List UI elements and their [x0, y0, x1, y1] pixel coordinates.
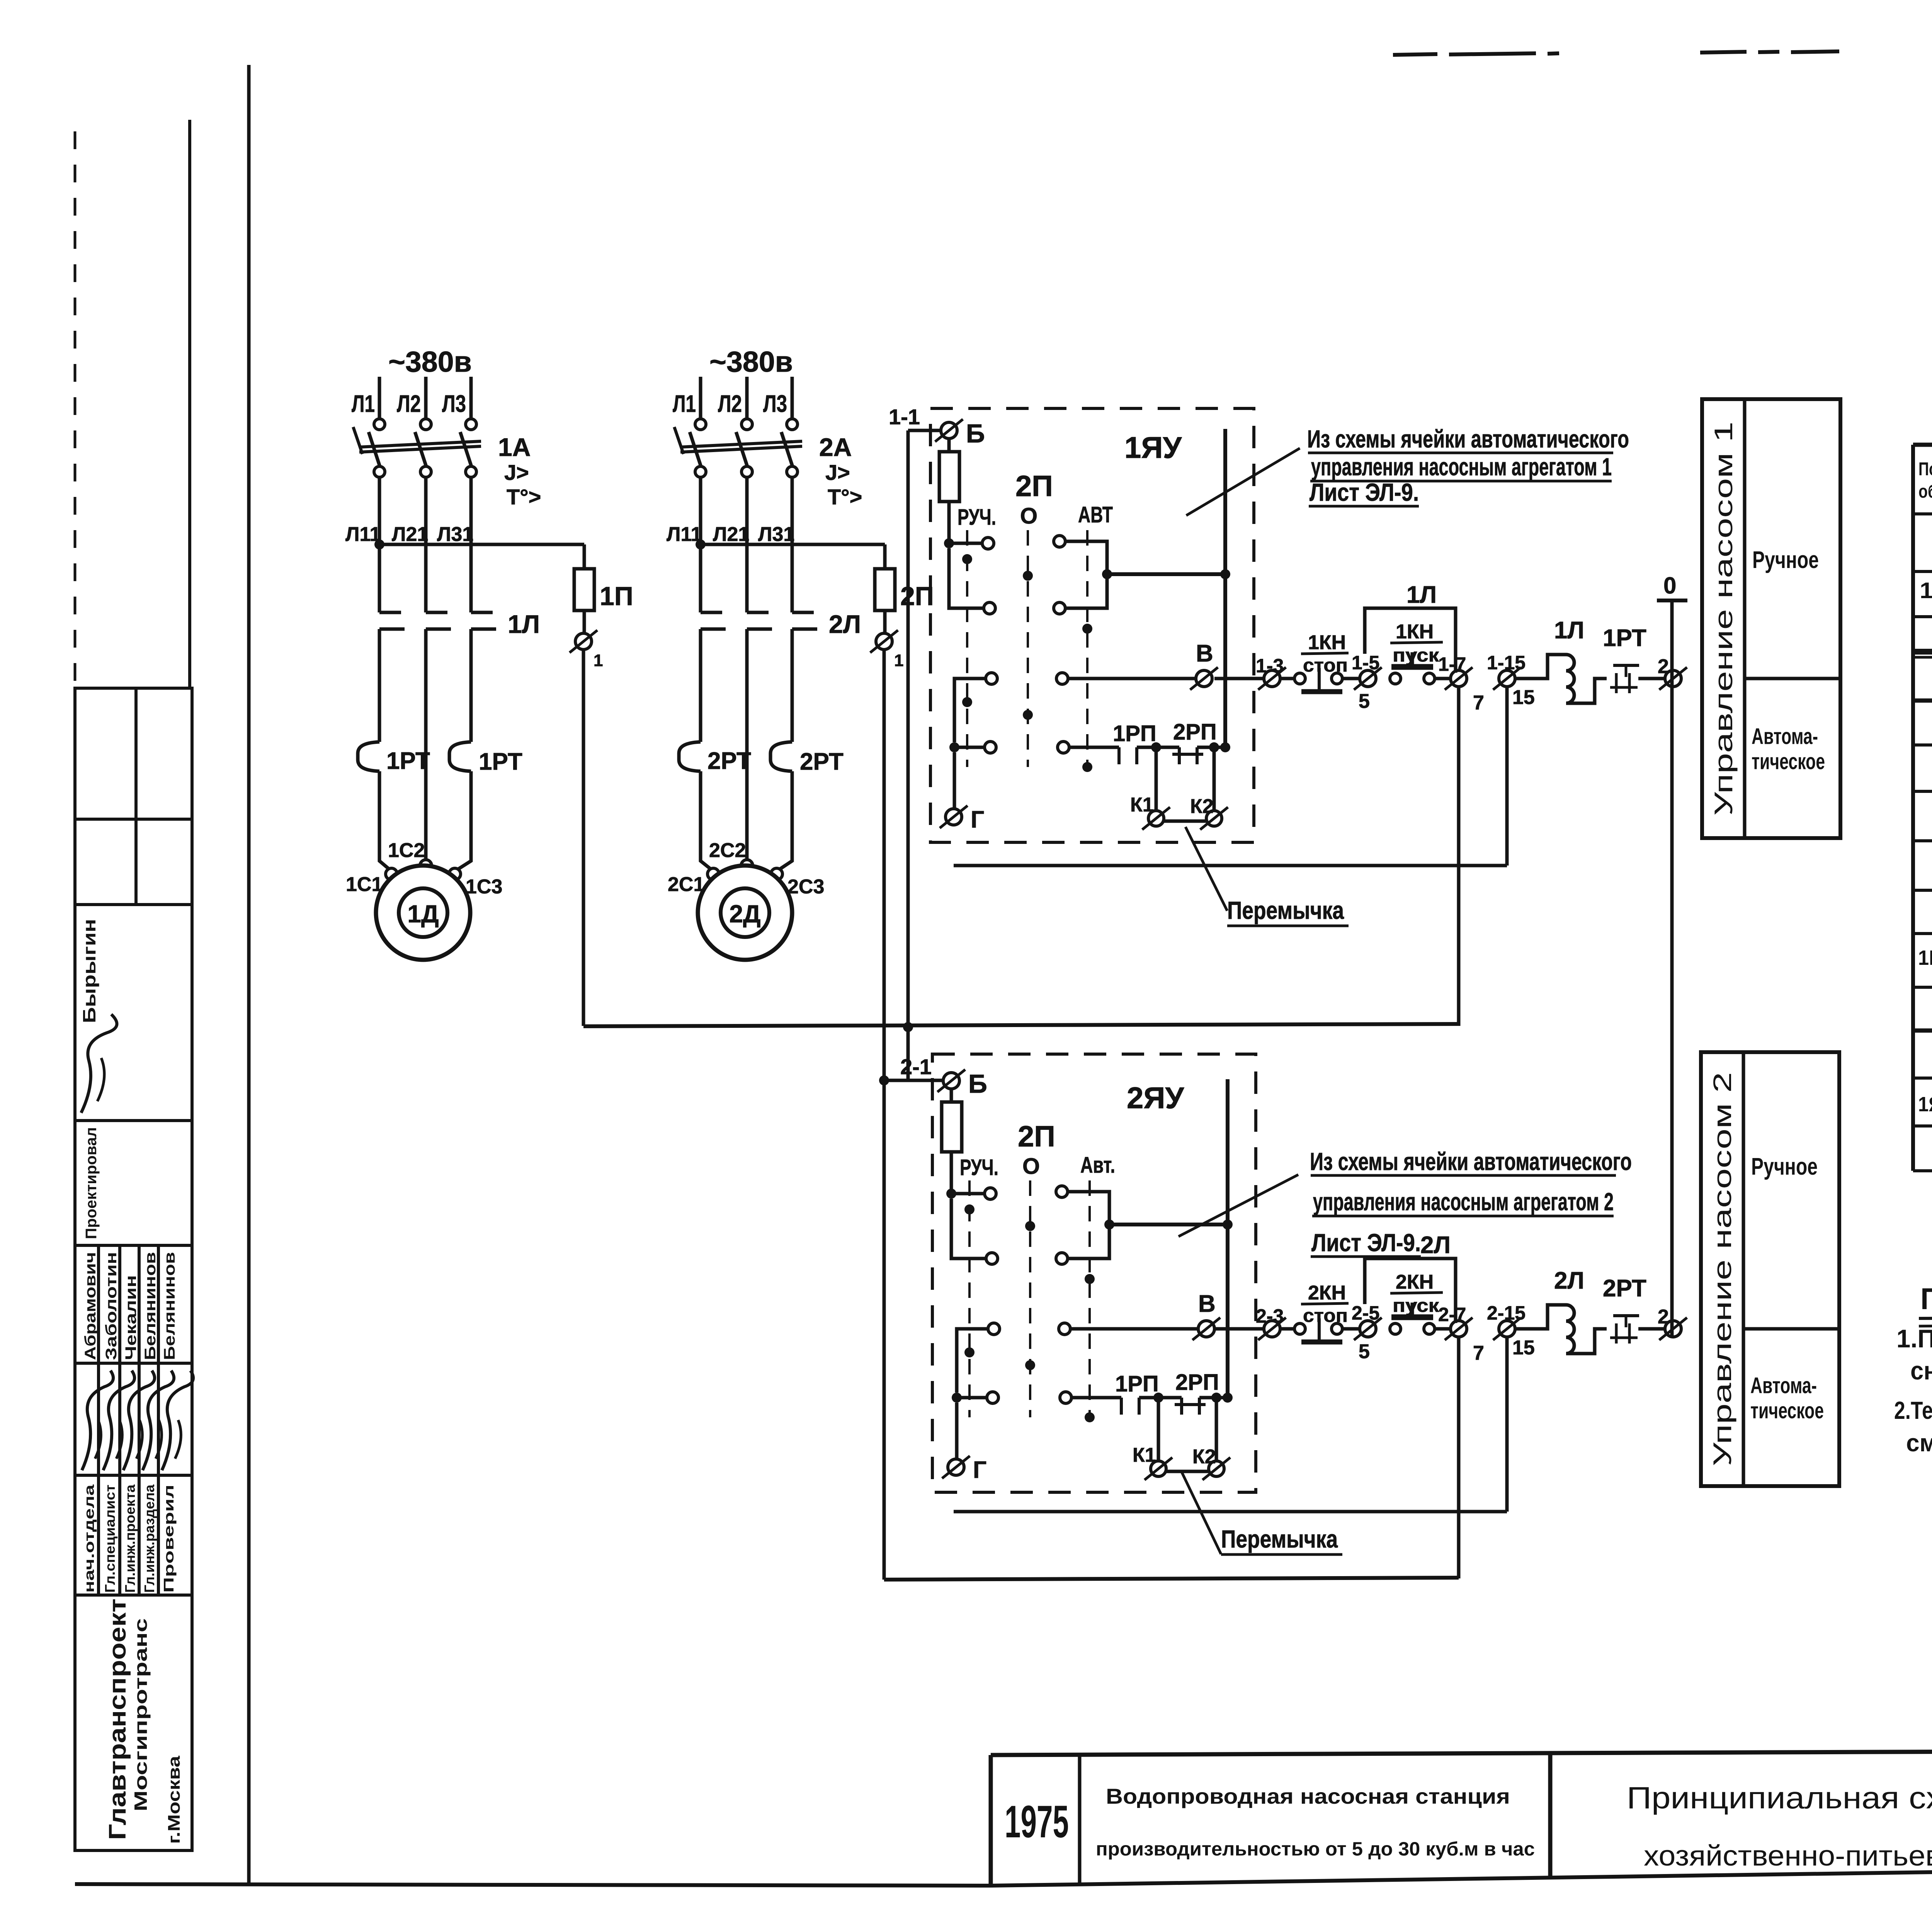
svg-text:2-15: 2-15	[1487, 1302, 1526, 1324]
motor terminal 2С1	[707, 868, 719, 880]
internal bus wire 2ЯУ	[1226, 1079, 1230, 1398]
svg-text:Из схемы ячейки автоматическог: Из схемы ячейки автоматического	[1307, 425, 1629, 453]
switch contact АВТ row1 2ЯУ	[1056, 1186, 1068, 1197]
switch contact АВТ row3 1ЯУ	[1056, 673, 1068, 684]
switch position dot РУЧ upper 1ЯУ	[962, 554, 972, 564]
phase wire Л1 2	[699, 377, 702, 419]
junction dot bus lower 2ЯУ	[1223, 1393, 1233, 1403]
svg-text:2А: 2А	[819, 433, 852, 461]
wire 1-15 down to Г link	[1505, 687, 1509, 866]
svg-text:см. листы ЭЛ-4 и ЭЛ-6.: см. листы ЭЛ-4 и ЭЛ-6.	[1906, 1429, 1932, 1457]
svg-text:1С2: 1С2	[388, 839, 425, 862]
svg-text:Лист ЭЛ-9.: Лист ЭЛ-9.	[1311, 1229, 1421, 1257]
box Управление насосом 2	[1701, 1052, 1839, 1486]
svg-text:1С1: 1С1	[346, 873, 383, 896]
svg-text:2КН: 2КН	[1308, 1282, 1346, 1304]
stop button 2КН	[1294, 1323, 1305, 1334]
svg-text:1-3: 1-3	[1256, 655, 1284, 677]
wire contactor to relay phase3 2	[791, 629, 794, 742]
svg-text:пуск: пуск	[1393, 645, 1439, 666]
svg-text:Гл.инж.раздела: Гл.инж.раздела	[141, 1484, 157, 1593]
svg-text:Л1: Л1	[673, 391, 696, 417]
terminal К1 1ЯУ	[1148, 811, 1164, 826]
switch position dot АВТ bottom 1ЯУ	[1082, 762, 1092, 772]
svg-text:Перемычка: Перемычка	[1227, 896, 1344, 924]
wire breaker to contactor phase1 1	[378, 477, 381, 612]
svg-text:2-7: 2-7	[1438, 1304, 1466, 1325]
thermal relay heater 2РТ phase1	[679, 742, 701, 771]
wire row1 to row2 РУЧ 1ЯУ	[949, 548, 984, 608]
relay contact 1РП 2ЯУ	[1120, 1398, 1123, 1415]
svg-text:Перемычка: Перемычка	[1221, 1525, 1338, 1553]
svg-text:Т°>: Т°>	[507, 485, 541, 509]
svg-text:2: 2	[1658, 655, 1669, 678]
auxiliary contact 2Л seal-in	[1365, 1259, 1456, 1323]
svg-text:Ручное: Ручное	[1752, 547, 1819, 573]
junction dot К1 branch 1ЯУ	[1151, 742, 1161, 752]
terminal after fuse 2	[876, 633, 892, 650]
svg-text:J>: J>	[825, 460, 850, 485]
motor 1Д	[376, 866, 470, 960]
wire breaker to contactor phase2 1	[424, 477, 428, 612]
svg-text:Бырыгин: Бырыгин	[79, 919, 99, 1023]
junction dot bus upper 2ЯУ	[1223, 1219, 1233, 1230]
svg-text:1: 1	[894, 651, 903, 670]
switch contact РУЧ row1 1ЯУ	[944, 538, 954, 548]
terminal К1 2ЯУ	[1151, 1461, 1166, 1476]
svg-text:2П: 2П	[1015, 470, 1053, 503]
wire 2-15 down to Г link	[1505, 1337, 1509, 1512]
svg-text:управления насосным агрегатом: управления насосным агрегатом 1	[1311, 453, 1612, 481]
wire 2-3 to stop button	[1280, 1327, 1294, 1331]
svg-text:производительностью от 5 до 30: производительностью от 5 до 30 куб.м в ч…	[1096, 1838, 1535, 1860]
svg-text:7: 7	[1473, 692, 1484, 714]
svg-text:2РП: 2РП	[1173, 719, 1217, 745]
start button 1КН пуск	[1390, 673, 1401, 684]
wire contactor to motor phase2 1	[424, 629, 428, 860]
terminal К2 2ЯУ	[1209, 1461, 1224, 1476]
svg-text:2-3: 2-3	[1256, 1305, 1284, 1327]
junction dot bus upper 1ЯУ	[1220, 569, 1230, 579]
terminal В 2ЯУ	[1198, 1321, 1214, 1337]
svg-text:1РТ: 1РТ	[386, 748, 430, 774]
phase wire Л2 2	[745, 377, 749, 419]
wire stop to 2-5	[1342, 1327, 1360, 1331]
svg-text:Гл.инж.проекта: Гл.инж.проекта	[122, 1484, 138, 1593]
terminal 1-5	[1360, 670, 1376, 687]
stamp signatures	[81, 1014, 193, 1470]
phase wire Л3 1	[469, 377, 473, 419]
svg-text:тическое: тическое	[1752, 749, 1825, 774]
terminal 2 circuit 2	[1665, 1321, 1681, 1337]
wire АВТ to internal bus 1ЯУ	[1107, 572, 1225, 576]
svg-text:Из схемы ячейки автоматическог: Из схемы ячейки автоматического	[1310, 1148, 1632, 1175]
thermal relay contact 1РТ	[1613, 664, 1639, 667]
svg-text:2С2: 2С2	[709, 839, 746, 862]
terminal 2-5	[1360, 1321, 1376, 1337]
svg-text:Л2: Л2	[397, 391, 421, 417]
svg-text:Б: Б	[966, 419, 985, 448]
stop button 1КН	[1294, 673, 1305, 684]
svg-text:0: 0	[1663, 573, 1676, 599]
svg-text:1П: 1П	[600, 582, 633, 611]
svg-text:15: 15	[1512, 1337, 1535, 1359]
switch contact РУЧ row3 2ЯУ	[988, 1323, 1000, 1335]
junction dot phase1 branch 2	[696, 539, 706, 549]
switch position dot АВТ bottom 2ЯУ	[1085, 1412, 1095, 1422]
svg-text:1Кн; 2Кн: 1Кн; 2Кн	[1918, 946, 1932, 969]
switch position dot О lower 1ЯУ	[1023, 710, 1033, 720]
wire breaker to contactor phase1 2	[699, 477, 702, 612]
supply bus circuit 2	[884, 1578, 1459, 1580]
callout leader cell 2ЯУ	[1179, 1175, 1298, 1236]
svg-text:1Л: 1Л	[1554, 617, 1584, 644]
wire fuse terminal down 2	[883, 650, 886, 1080]
wire start to 1-7	[1435, 677, 1451, 680]
svg-text:2-5: 2-5	[1352, 1302, 1379, 1324]
svg-text:управления насосным агрегатом: управления насосным агрегатом 2	[1313, 1188, 1614, 1216]
relay contact 2РП 2ЯУ	[1180, 1398, 1183, 1415]
wire row3 to terminal В 2ЯУ	[1070, 1327, 1198, 1331]
svg-text:1Д: 1Д	[407, 900, 439, 928]
svg-text:Водопроводная насосная станц: Водопроводная насосная станция	[1106, 1784, 1510, 1808]
svg-text:1.Перемычка К1–К2 в автомат: 1.Перемычка К1–К2 в автоматическом режим…	[1896, 1324, 1932, 1353]
svg-text:~380в: ~380в	[709, 345, 793, 378]
title block	[991, 1689, 1932, 1886]
svg-text:Позиционное: Позиционное	[1918, 459, 1932, 480]
wire row3 to terminal В 1ЯУ	[1068, 677, 1196, 680]
svg-text:J>: J>	[504, 460, 529, 485]
switch position dot РУЧ lower 1ЯУ	[962, 697, 972, 707]
wire breaker to contactor phase2 2	[745, 477, 749, 612]
contactor main contacts 1Л	[379, 611, 401, 614]
contactor main contacts 2Л	[701, 611, 722, 614]
svg-text:тическое: тическое	[1750, 1398, 1824, 1423]
svg-text:Принципиальная схема управлен: Принципиальная схема управления	[1627, 1781, 1932, 1815]
junction dot К1 branch 2ЯУ	[1153, 1393, 1163, 1403]
svg-text:1975: 1975	[1005, 1796, 1069, 1847]
junction dot bus lower 1ЯУ	[1220, 742, 1230, 752]
wire fuse to terminal 2	[883, 611, 887, 633]
svg-text:Л21: Л21	[713, 523, 749, 546]
svg-text:2С1: 2С1	[668, 873, 704, 896]
wire 1РТ to terminal 2	[1638, 677, 1664, 680]
svg-text:Л21: Л21	[392, 523, 428, 546]
svg-text:Проектировал: Проектировал	[83, 1127, 100, 1239]
fuse in cell 2ЯУ	[950, 1089, 953, 1102]
svg-text:1РТ: 1РТ	[479, 748, 522, 775]
svg-text:1: 1	[594, 651, 603, 670]
fuse 2П	[875, 569, 895, 611]
wire start to 2-7	[1435, 1327, 1451, 1331]
wire branch to fuse 1П	[379, 543, 584, 546]
phase wire Л1 1	[378, 377, 381, 419]
svg-text:1ЯУ: 1ЯУ	[1124, 430, 1182, 464]
switch position dot О lower 2ЯУ	[1025, 1360, 1035, 1370]
terminal Г 1ЯУ	[946, 809, 962, 825]
wire В to 1-3 2	[1214, 1327, 1264, 1331]
motor terminal 1С3	[449, 868, 461, 880]
motor terminal 1С2	[420, 860, 432, 871]
terminal Б 1ЯУ	[941, 422, 957, 439]
start button 2КН пуск	[1390, 1323, 1401, 1334]
svg-text:К2: К2	[1192, 1446, 1216, 1468]
svg-text:Л3: Л3	[763, 391, 787, 417]
svg-text:Г: Г	[971, 806, 984, 833]
circuit breaker 1А	[374, 419, 385, 430]
wire to К1 1ЯУ	[1155, 747, 1158, 811]
wire 2РП to bus 2ЯУ	[1199, 1396, 1228, 1400]
svg-text:2ЯУ: 2ЯУ	[1127, 1081, 1184, 1115]
control cell 1ЯУ dashed enclosure	[930, 408, 1254, 842]
wire relay to motor phase1 1	[379, 771, 392, 872]
svg-text:Примечания:: Примечания:	[1920, 1282, 1932, 1316]
svg-text:~380в: ~380в	[388, 345, 472, 378]
wire contactor to relay phase3 1	[469, 629, 473, 742]
svg-text:2Л: 2Л	[829, 610, 861, 638]
svg-text:1КН: 1КН	[1396, 621, 1434, 643]
svg-text:снимается.: снимается.	[1910, 1356, 1932, 1385]
wire 2-1 horizontal to Б 2ЯУ	[884, 1079, 943, 1082]
wire Г link horizontal 1	[954, 864, 1507, 867]
wire РУЧ row4 to Г 2ЯУ	[955, 1403, 959, 1459]
svg-text:Б: Б	[968, 1069, 987, 1099]
svg-text:5: 5	[1359, 690, 1370, 713]
wire 1-7 down to bus	[1457, 687, 1461, 1026]
svg-text:Белянинов: Белянинов	[142, 1252, 159, 1360]
terminal 1-15	[1499, 670, 1515, 687]
svg-text:1-7: 1-7	[1438, 653, 1466, 675]
wire row1 to row2 РУЧ 2ЯУ	[951, 1199, 986, 1259]
svg-text:7: 7	[1473, 1342, 1484, 1364]
wire АВТ to internal bus 2ЯУ	[1109, 1223, 1228, 1226]
svg-text:Абрамович: Абрамович	[82, 1252, 99, 1360]
svg-text:Мосгипротранс: Мосгипротранс	[131, 1618, 151, 1811]
switch position dot РУЧ upper 2ЯУ	[964, 1204, 975, 1214]
jumper К1-К2 1ЯУ	[1164, 820, 1206, 823]
thermal relay heater 2РТ phase3	[770, 742, 792, 771]
svg-text:обозначение: обозначение	[1918, 481, 1932, 502]
wire relay to motor phase3 1	[454, 771, 471, 872]
wire contactor to motor phase2 2	[745, 629, 749, 860]
fuse in cell 1ЯУ	[947, 439, 951, 452]
terminal В 1ЯУ	[1196, 670, 1212, 687]
svg-text:Автома-: Автома-	[1752, 724, 1818, 749]
svg-text:Главтранспроект: Главтранспроект	[104, 1599, 131, 1840]
wire fuse terminal down 1	[582, 650, 585, 1026]
svg-text:Л1: Л1	[352, 391, 375, 417]
switch position dot О upper 2ЯУ	[1025, 1221, 1035, 1231]
svg-text:5: 5	[1359, 1340, 1370, 1363]
switch contact РУЧ row4 1ЯУ	[949, 742, 959, 752]
wire 2-7 down to bus	[1457, 1337, 1461, 1578]
neutral 0 wire	[1657, 599, 1687, 602]
jumper К1-К2 2ЯУ	[1167, 1470, 1208, 1473]
svg-text:1РП: 1РП	[1113, 721, 1156, 746]
wire contactor to relay phase1 2	[699, 629, 702, 742]
svg-text:1-15: 1-15	[1487, 652, 1526, 673]
switch position dot О upper 1ЯУ	[1023, 571, 1033, 581]
relay contact 1РП 1ЯУ	[1117, 747, 1121, 764]
motor terminal 1С1	[386, 868, 397, 880]
svg-text:Управление насосом 2: Управление насосом 2	[1708, 1072, 1736, 1466]
svg-text:Чекалин: Чекалин	[122, 1275, 139, 1360]
junction dot bus feed 1-1	[903, 1022, 913, 1032]
wire РУЧ row4 to Г 1ЯУ	[953, 752, 956, 809]
wire to К1 2ЯУ	[1157, 1398, 1160, 1461]
svg-text:В: В	[1196, 640, 1213, 667]
svg-text:Гл.специалист: Гл.специалист	[102, 1485, 118, 1593]
terminal after fuse 1	[575, 633, 592, 650]
wire relay to motor phase1 2	[701, 771, 714, 872]
svg-text:2РТ: 2РТ	[1603, 1275, 1646, 1302]
terminal К2 1ЯУ	[1206, 811, 1222, 826]
svg-text:Белянинов: Белянинов	[161, 1252, 178, 1360]
svg-text:Лист ЭЛ-9.: Лист ЭЛ-9.	[1310, 478, 1419, 506]
control cell 2ЯУ dashed enclosure	[932, 1054, 1256, 1492]
switch contact РУЧ row4 2ЯУ	[952, 1393, 962, 1403]
svg-text:Авт.: Авт.	[1080, 1153, 1115, 1178]
svg-text:2РП: 2РП	[1175, 1370, 1219, 1395]
wire В to 1-3 1	[1214, 677, 1264, 680]
switch contact АВТ row4 2ЯУ	[1060, 1392, 1071, 1403]
wire stop to 1-5	[1342, 677, 1360, 680]
svg-text:Л31: Л31	[758, 523, 794, 546]
thermal relay contact 2РТ	[1613, 1314, 1639, 1317]
wire 1РП to 2РП 1ЯУ	[1137, 746, 1179, 749]
svg-text:2РТ: 2РТ	[707, 748, 751, 774]
thermal relay heater 1РТ phase3	[449, 742, 471, 771]
svg-text:Управление насосом 1: Управление насосом 1	[1709, 422, 1738, 816]
svg-text:К1: К1	[1130, 794, 1154, 816]
contactor coil 2Л	[1515, 1305, 1607, 1354]
terminal 2-3	[1264, 1321, 1280, 1337]
fuse 1П	[574, 569, 594, 611]
wire relay to motor phase3 2	[776, 771, 792, 872]
junction dot 2П branch	[879, 1075, 889, 1085]
switch contact РУЧ row2 1ЯУ	[984, 602, 995, 614]
switch contact РУЧ row1 2ЯУ	[946, 1189, 956, 1199]
switch contact АВТ row3 2ЯУ	[1059, 1323, 1070, 1335]
motor terminal 2С2	[741, 860, 753, 871]
svg-text:О: О	[1022, 1154, 1040, 1179]
switch contact АВТ row1 1ЯУ	[1054, 536, 1065, 547]
switch contact РУЧ row2 2ЯУ	[986, 1253, 998, 1264]
wire fuse to terminal 1	[583, 611, 586, 633]
internal bus wire 1ЯУ	[1223, 429, 1227, 747]
terminal Г 2ЯУ	[948, 1459, 964, 1475]
switch contact АВТ row2 1ЯУ	[1054, 602, 1065, 614]
svg-text:2Л: 2Л	[1554, 1267, 1584, 1294]
box Управление насосом 1	[1702, 399, 1840, 838]
junction dot К2 branch 2ЯУ	[1211, 1393, 1221, 1403]
svg-text:К1: К1	[1133, 1444, 1156, 1466]
wire 2РТ to terminal 2	[1638, 1327, 1664, 1331]
svg-text:Л2: Л2	[718, 391, 742, 417]
svg-text:1ЯУ; 2ЯУ: 1ЯУ; 2ЯУ	[1918, 1093, 1932, 1116]
wire to К2 1ЯУ	[1213, 747, 1216, 811]
thermal relay heater 1РТ phase1	[358, 742, 379, 771]
svg-text:г.Москва: г.Москва	[165, 1755, 184, 1844]
terminal Б 2ЯУ	[943, 1073, 959, 1089]
motor 2Д	[698, 866, 792, 960]
svg-text:1Л: 1Л	[508, 610, 540, 638]
junction dot phase1 branch 1	[374, 539, 384, 549]
junction dot АВТ rows 1ЯУ	[1102, 569, 1112, 579]
svg-text:Проверил: Проверил	[161, 1485, 177, 1593]
callout leader jumper 1	[1185, 827, 1227, 911]
svg-text:Г: Г	[973, 1457, 986, 1483]
svg-text:Заболотин: Заболотин	[103, 1252, 120, 1360]
svg-text:15: 15	[1512, 686, 1535, 709]
circuit breaker 2А	[695, 419, 706, 430]
svg-text:Л3: Л3	[442, 391, 466, 417]
switch position dot АВТ 1ЯУ	[1082, 624, 1092, 634]
svg-text:Т°>: Т°>	[828, 485, 862, 509]
svg-text:2-1: 2-1	[900, 1054, 932, 1079]
relay contact 2РП 1ЯУ	[1178, 747, 1181, 764]
supply bus from fuse 1П	[583, 1024, 1459, 1026]
wire 1РП to 2РП 2ЯУ	[1139, 1396, 1182, 1400]
svg-text:1-1: 1-1	[889, 405, 920, 429]
terminal 1-3	[1264, 670, 1280, 687]
switch contact АВТ row4 1ЯУ	[1058, 742, 1069, 753]
svg-text:хозяйственно-питьевыми насоса: хозяйственно-питьевыми насосами	[1644, 1840, 1932, 1872]
wire branch to fuse 2П	[701, 543, 885, 546]
switch position dot РУЧ lower 2ЯУ	[964, 1347, 975, 1357]
svg-text:1-5: 1-5	[1352, 652, 1379, 673]
wire 2П branch down to bus 2	[883, 1080, 886, 1580]
switch contact АВТ row2 2ЯУ	[1056, 1253, 1068, 1264]
wire to К2 2ЯУ	[1215, 1398, 1218, 1461]
svg-text:1РП: 1РП	[1115, 1371, 1159, 1396]
wire breaker to contactor phase3 1	[469, 477, 473, 612]
svg-text:стоп: стоп	[1303, 1306, 1348, 1326]
svg-text:О: О	[1020, 503, 1037, 529]
svg-text:1Л: 1Л	[1406, 582, 1437, 608]
terminal 2-15	[1499, 1321, 1515, 1337]
svg-text:2.Технические данные электро: 2.Технические данные электрооборудования…	[1894, 1396, 1932, 1424]
left stamp table	[75, 120, 192, 1850]
auxiliary contact 1Л seal-in	[1365, 608, 1456, 673]
svg-text:2П: 2П	[900, 582, 934, 611]
phase wire Л3 2	[791, 377, 794, 419]
svg-text:стоп: стоп	[1303, 655, 1348, 676]
svg-text:В: В	[1198, 1291, 1216, 1317]
svg-text:РУЧ.: РУЧ.	[960, 1155, 998, 1180]
terminal 1-7	[1451, 670, 1467, 687]
callout leader cell 1ЯУ	[1186, 448, 1300, 515]
phase wire Л2 1	[424, 377, 428, 419]
svg-text:2РТ: 2РТ	[800, 748, 844, 775]
svg-text:1С3: 1С3	[466, 876, 502, 898]
svg-text:нач.отдела: нач.отдела	[81, 1484, 97, 1593]
contactor coil 1Л	[1515, 655, 1607, 703]
switch contact РУЧ row3 1ЯУ	[986, 673, 997, 684]
svg-text:2Л: 2Л	[1420, 1232, 1451, 1259]
svg-text:1Д; 2Д: 1Д; 2Д	[1920, 578, 1932, 603]
motor terminal 2С3	[771, 868, 782, 880]
table Перечень элементов	[1912, 445, 1932, 1171]
wire breaker to contactor phase3 2	[791, 477, 794, 612]
svg-text:Автома-: Автома-	[1750, 1373, 1817, 1398]
svg-text:2П: 2П	[1018, 1120, 1055, 1153]
svg-text:2: 2	[1658, 1306, 1669, 1328]
notes Примечания	[1894, 1282, 1932, 1457]
wire 1-1 vertical supply	[906, 430, 910, 1080]
svg-text:Л31: Л31	[437, 523, 473, 546]
svg-text:2С3: 2С3	[787, 876, 824, 898]
